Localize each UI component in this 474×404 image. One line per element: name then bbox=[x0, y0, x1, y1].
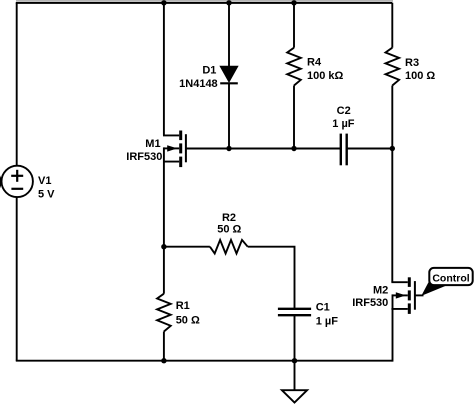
voltage source V1 bbox=[2, 166, 33, 197]
wire M2 source (M2 down to bottom rail) bbox=[392, 294, 394, 361]
svg-text:100 Ω: 100 Ω bbox=[405, 70, 435, 82]
svg-text:V1: V1 bbox=[38, 175, 51, 187]
node C2 R3 bbox=[390, 146, 395, 151]
node bottom R1 bbox=[161, 358, 166, 363]
wire R3 bottom (R3 down to C2 junction) bbox=[391, 86, 393, 149]
svg-text:M1: M1 bbox=[145, 138, 160, 150]
svg-text:5 V: 5 V bbox=[38, 189, 55, 201]
ground bbox=[282, 390, 307, 402]
wire M1 drain (top rail down to M1) bbox=[163, 3, 165, 136]
wire left rail lower (V1 to bottom rail) bbox=[16, 197, 18, 361]
wire M1 source (M1 down to R2 junction and R1) bbox=[163, 147, 165, 293]
svg-text:IRF530: IRF530 bbox=[352, 297, 388, 309]
wire M2 gate lead bbox=[415, 294, 424, 296]
wire R4 bottom (R4 to gate wire) bbox=[293, 86, 295, 149]
wire R4 top (top rail to R4) bbox=[293, 3, 295, 48]
callout Control bbox=[421, 268, 472, 296]
wire R3 top (top rail to R3) bbox=[391, 3, 393, 48]
node top R4 bbox=[291, 0, 296, 5]
svg-text:D1: D1 bbox=[202, 65, 216, 77]
svg-text:R4: R4 bbox=[307, 57, 322, 69]
wire R1 bottom (R1 to bottom rail) bbox=[163, 332, 165, 361]
wire R2 right (R2 to C1 branch corner) bbox=[248, 247, 295, 309]
wire gate net (M1 gate to C2 left plate) bbox=[186, 148, 340, 150]
clipped artifact blob at left edge bbox=[0, 176, 2, 189]
svg-text:50 Ω: 50 Ω bbox=[176, 314, 200, 326]
node R2 branch bbox=[161, 244, 166, 249]
capacitor C1 bbox=[278, 309, 311, 315]
svg-text:R2: R2 bbox=[222, 212, 236, 224]
wire bottom rail bbox=[16, 360, 393, 362]
node gate R4 bbox=[291, 146, 296, 151]
wire left rail upper (top rail to V1) bbox=[16, 3, 18, 166]
wire D1 bottom (cathode to gate wire) bbox=[228, 83, 230, 148]
node top D1 bbox=[226, 0, 231, 5]
svg-text:1 µF: 1 µF bbox=[332, 118, 355, 130]
svg-text:C1: C1 bbox=[316, 301, 330, 313]
diode D1 bbox=[220, 66, 238, 83]
svg-text:50 Ω: 50 Ω bbox=[217, 223, 241, 235]
svg-text:C2: C2 bbox=[337, 105, 351, 117]
wire ground stub bbox=[294, 361, 296, 391]
wire C2 right (C2 to R3/M2 node) bbox=[347, 148, 392, 150]
wire M2 drain (C2 node down to M2) bbox=[391, 149, 393, 283]
resistor R3 bbox=[386, 48, 400, 86]
svg-text:1N4148: 1N4148 bbox=[179, 78, 218, 90]
wire C1 bottom (C1 to bottom rail) bbox=[294, 316, 296, 361]
svg-text:Control: Control bbox=[432, 273, 469, 285]
wire R2 left (R1 node to R2) bbox=[164, 246, 210, 248]
svg-text:IRF530: IRF530 bbox=[126, 151, 162, 163]
transistor M1 bbox=[163, 131, 186, 168]
resistor R4 bbox=[287, 48, 301, 86]
svg-text:M2: M2 bbox=[373, 284, 388, 296]
wire top rail bbox=[16, 2, 393, 4]
resistor R1 bbox=[157, 294, 171, 332]
svg-text:R3: R3 bbox=[405, 57, 419, 69]
svg-text:100 kΩ: 100 kΩ bbox=[307, 70, 344, 82]
node gate D1 bbox=[226, 146, 231, 151]
node bottom C1 ground bbox=[292, 358, 297, 363]
wire D1 top (top rail to anode) bbox=[228, 3, 230, 67]
svg-text:1 µF: 1 µF bbox=[316, 316, 339, 328]
top rail grey clipped edge bbox=[16, 0, 393, 2]
svg-text:R1: R1 bbox=[176, 300, 190, 312]
resistor R2 bbox=[210, 240, 248, 254]
node top M1 bbox=[161, 0, 166, 5]
transistor M2 bbox=[391, 277, 415, 314]
capacitor C2 bbox=[341, 134, 347, 166]
